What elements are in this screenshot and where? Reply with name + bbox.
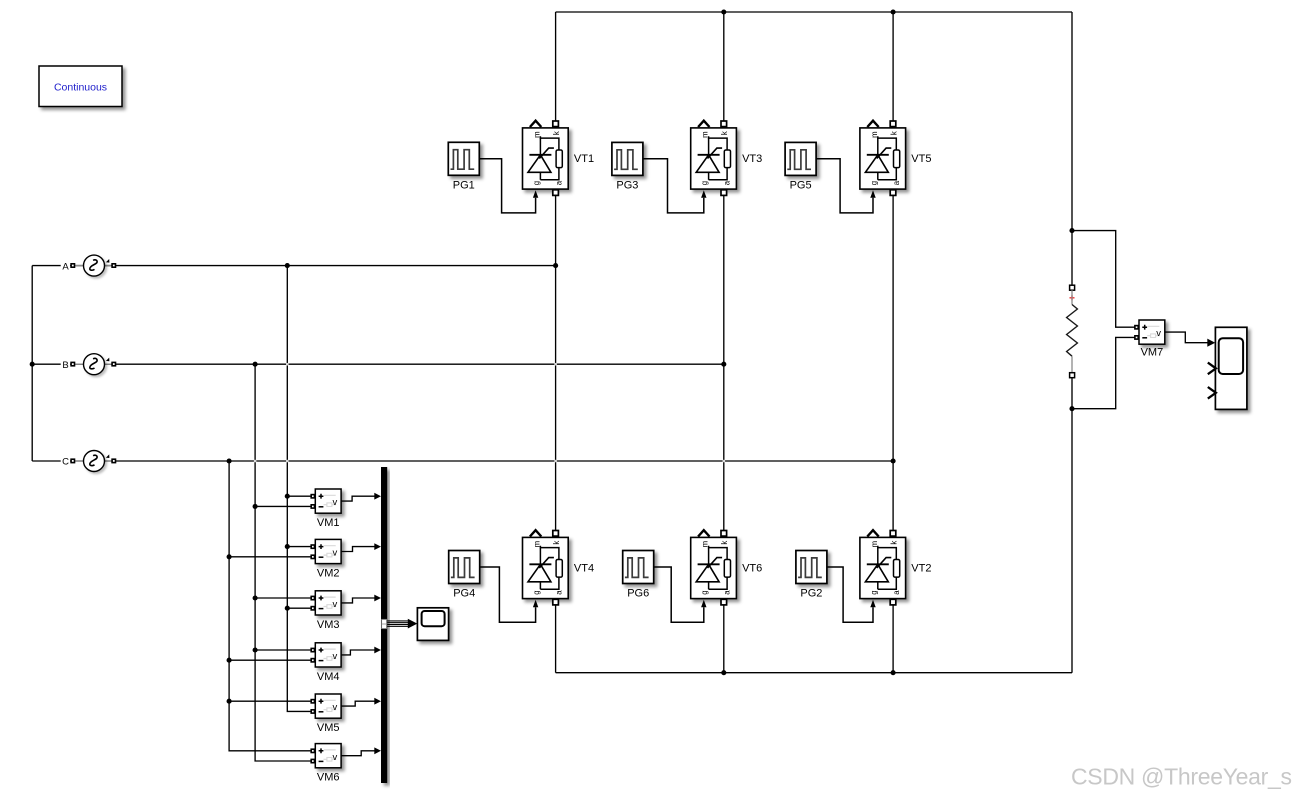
svg-text:PG2: PG2 — [800, 588, 822, 600]
wire lower thyristor anode to bottom rail — [892, 605, 894, 673]
voltage measurement VM6 — [310, 744, 341, 768]
wire load+ to VM7+ — [1072, 231, 1135, 328]
thyristor VT1 — [523, 121, 569, 198]
voltage measurement VM1 — [310, 489, 341, 513]
svg-text:v: v — [1156, 328, 1161, 339]
junction C-bus / VM2- — [227, 554, 232, 559]
svg-text:v: v — [333, 702, 338, 713]
svg-text:a: a — [723, 590, 732, 595]
junction A-bus / VM2+ — [285, 544, 290, 549]
wire VM3 output to mux — [341, 598, 375, 603]
powergui block Continuous — [39, 66, 122, 107]
pulse generator PG5 — [785, 142, 816, 175]
wire bus phase A down — [287, 266, 311, 712]
pulse generator PG2 — [796, 551, 827, 584]
wire top DC rail — [556, 11, 1072, 13]
scope (phase voltages) — [417, 608, 448, 641]
wire VM2 - input — [229, 556, 311, 558]
arrow VM1 into mux — [374, 493, 381, 500]
svg-text:VM2: VM2 — [317, 567, 340, 579]
wire top junction to resistor — [1071, 231, 1073, 286]
svg-text:PG1: PG1 — [453, 180, 475, 192]
svg-text:PG4: PG4 — [453, 588, 475, 600]
junction bottom rail / VT2 — [891, 670, 896, 675]
svg-text:VM6: VM6 — [317, 772, 340, 784]
junction top rail / VT3 — [721, 9, 726, 14]
wire VM4 - input — [229, 659, 311, 661]
svg-text:a: a — [554, 590, 563, 595]
scope (output voltage) — [1208, 327, 1247, 409]
svg-text:k: k — [552, 131, 561, 135]
arrow VM5 into mux — [374, 698, 381, 705]
wire gate PG3-VT3 — [643, 159, 704, 213]
svg-text:Continuous: Continuous — [54, 81, 107, 93]
wire crossing (no junction) — [723, 460, 726, 463]
svg-text:VT4: VT4 — [574, 563, 594, 575]
wire VM1 - input — [255, 505, 311, 507]
resistor load R (series RLC branch) — [1067, 285, 1078, 378]
svg-text:k: k — [552, 541, 561, 545]
wire crossing (no junction) — [554, 363, 557, 366]
wire load- to VM7- — [1072, 337, 1135, 408]
wire thyristor anode to phase — [555, 194, 557, 531]
svg-text:VT3: VT3 — [742, 153, 762, 165]
svg-text:g: g — [700, 181, 709, 185]
svg-text:k: k — [889, 541, 898, 545]
mux output port — [382, 619, 387, 628]
arrow into scope port 1 — [1207, 339, 1215, 347]
wire gate PG5-VT5 — [816, 159, 873, 213]
svg-text:k: k — [720, 131, 729, 135]
pulse generator PG3 — [612, 142, 643, 175]
svg-text:a: a — [892, 590, 901, 595]
svg-text:a: a — [554, 180, 563, 185]
svg-text:C: C — [62, 457, 69, 468]
wire mux to scope (vector signal) — [387, 619, 417, 629]
wire VM1 output to mux — [341, 496, 375, 501]
junction bottom rail / VT6 — [721, 670, 726, 675]
svg-text:v: v — [333, 497, 338, 508]
svg-text:v: v — [333, 548, 338, 559]
wire crossing (no junction) — [554, 460, 557, 463]
wire gate PG2-VT2 — [827, 567, 873, 622]
junction load top — [1069, 228, 1074, 233]
junction B-bus / VM3+ — [253, 595, 258, 600]
wire lower thyristor anode to bottom rail — [723, 605, 725, 673]
wire VM1 + input — [287, 495, 311, 497]
pulse generator PG4 — [449, 551, 480, 584]
wire bottom DC rail — [556, 672, 1072, 674]
voltage measurement VM3 — [310, 591, 341, 615]
voltage measurement VM7 — [1134, 320, 1165, 344]
wire bus phase B down — [255, 364, 311, 761]
junction C-bus / VM5+ — [227, 699, 232, 704]
wire VM4 output to mux — [341, 650, 375, 655]
svg-text:k: k — [720, 541, 729, 545]
svg-text:PG3: PG3 — [616, 180, 638, 192]
thyristor VT2 — [860, 530, 906, 607]
voltage measurement VM4 — [310, 643, 341, 667]
wire gate PG1-VT1 — [479, 159, 535, 213]
junction top rail / VT5 — [891, 9, 896, 14]
junction neutral-B — [30, 362, 35, 367]
svg-text:a: a — [892, 180, 901, 185]
svg-text:CSDN @ThreeYear_s: CSDN @ThreeYear_s — [1071, 764, 1292, 790]
junction B-bus / VM1- — [253, 504, 258, 509]
junction phase C / column — [891, 458, 896, 463]
pulse generator PG1 — [448, 142, 479, 175]
mux bus bar — [381, 467, 387, 783]
svg-text:B: B — [62, 360, 68, 371]
pulse generator PG6 — [623, 551, 654, 584]
wire crossing (no junction) — [254, 460, 257, 463]
wire crossing (no junction) — [286, 363, 289, 366]
junction phase B / column — [721, 362, 726, 367]
svg-text:v: v — [333, 651, 338, 662]
wire VM5 + input — [229, 700, 311, 702]
AC voltage source B — [61, 354, 117, 375]
wire resistor to bottom junction — [1071, 378, 1073, 409]
svg-text:m: m — [701, 541, 710, 548]
thyristor VT5 — [860, 121, 906, 198]
junction A-bus / VM1+ — [285, 494, 290, 499]
wire load bottom to bottom rail — [1071, 409, 1073, 673]
svg-text:PG5: PG5 — [790, 180, 812, 192]
voltage measurement VM5 — [310, 694, 341, 718]
wire top rail to thyristor cathode — [892, 12, 894, 122]
wire VM2 + input — [287, 546, 311, 548]
wire crossing (no junction) — [286, 460, 289, 463]
wire VM6 output to mux — [341, 751, 375, 756]
wire lower thyristor anode to bottom rail — [555, 605, 557, 673]
wire VM3 + input — [255, 597, 311, 599]
wire phase B — [32, 363, 724, 365]
arrow VM4 into mux — [374, 647, 381, 654]
svg-text:m: m — [870, 541, 879, 548]
svg-text:VM4: VM4 — [317, 671, 340, 683]
svg-text:VT1: VT1 — [574, 153, 594, 165]
wire gate PG4-VT4 — [480, 567, 536, 622]
arrow VM6 into mux — [374, 747, 381, 754]
wire VM7 output to scope — [1165, 332, 1208, 343]
svg-text:VM3: VM3 — [317, 619, 340, 631]
junction phase A / column — [553, 263, 558, 268]
svg-text:VM1: VM1 — [317, 517, 340, 529]
svg-text:g: g — [532, 181, 541, 185]
junction A-bus / VM3- — [285, 606, 290, 611]
svg-text:VT2: VT2 — [911, 563, 931, 575]
thyristor VT3 — [691, 121, 737, 198]
svg-text:PG6: PG6 — [627, 588, 649, 600]
svg-text:g: g — [700, 590, 709, 594]
junction C-bus start — [227, 458, 232, 463]
junction load bottom — [1069, 406, 1074, 411]
svg-text:k: k — [889, 131, 898, 135]
wire phase C — [32, 460, 893, 462]
wire thyristor anode to phase — [892, 194, 894, 531]
wire thyristor anode to phase — [723, 194, 725, 531]
AC voltage source A — [61, 255, 117, 276]
AC voltage source C — [61, 451, 117, 472]
svg-text:v: v — [333, 599, 338, 610]
junction B-bus start — [253, 362, 258, 367]
svg-text:VM5: VM5 — [317, 722, 340, 734]
arrow VM3 into mux — [374, 595, 381, 602]
wire VM2 output to mux — [341, 547, 375, 552]
wire phase A — [32, 265, 555, 267]
svg-text:m: m — [870, 131, 879, 138]
thyristor VT6 — [691, 530, 737, 607]
wire VM4 + input — [255, 649, 311, 651]
svg-text:VT6: VT6 — [742, 563, 762, 575]
wire VM5 output to mux — [341, 701, 375, 706]
wire VM3 - input — [287, 607, 311, 609]
wire top rail to thyristor cathode — [555, 12, 557, 122]
junction A-bus start — [285, 263, 290, 268]
arrow VM2 into mux — [374, 543, 381, 550]
svg-text:m: m — [701, 131, 710, 138]
junction C-bus / VM4- — [227, 658, 232, 663]
voltage measurement VM2 — [310, 539, 341, 563]
svg-text:g: g — [532, 590, 541, 594]
svg-text:m: m — [533, 131, 542, 138]
svg-text:v: v — [333, 752, 338, 763]
svg-text:VT5: VT5 — [911, 153, 931, 165]
svg-text:g: g — [869, 181, 878, 185]
junction B-bus / VM4+ — [253, 647, 258, 652]
svg-text:m: m — [533, 541, 542, 548]
wire bus phase C down — [229, 461, 311, 751]
svg-text:a: a — [723, 180, 732, 185]
svg-text:A: A — [62, 261, 69, 272]
wire gate PG6-VT6 — [654, 567, 704, 622]
wire top rail to thyristor cathode — [723, 12, 725, 122]
thyristor VT4 — [523, 530, 569, 607]
wire right rail down to load — [1071, 12, 1073, 231]
svg-text:g: g — [869, 590, 878, 594]
wire neutral bus left — [31, 266, 33, 461]
svg-text:VM7: VM7 — [1141, 346, 1164, 358]
